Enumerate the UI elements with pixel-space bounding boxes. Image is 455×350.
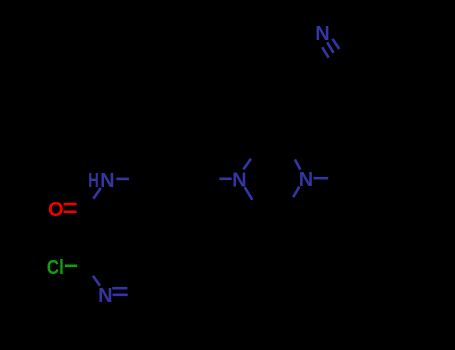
- wire nitrile triple bond middle line (half-bond): [327, 42, 334, 53]
- wire C=O double bond upper half: [64, 203, 77, 206]
- wire pyridine N=C6 double bond upper half: [112, 287, 127, 290]
- wire pyridine N to C2 (half-bond): [93, 276, 100, 286]
- wire piperazine N4 to benzyl C (half-bond): [314, 177, 329, 180]
- wire piperazine N4 to C3 up-left (half-bond): [295, 159, 300, 169]
- wire piperazine N1 to phenyl (half-bond): [219, 178, 231, 181]
- svg-text:Cl: Cl: [47, 257, 64, 279]
- wire piperazine N1 to C6 down-right (half-bond): [245, 187, 253, 200]
- svg-text:N: N: [315, 23, 329, 45]
- wire nitrile triple bond lower line (half-bond): [322, 47, 328, 58]
- wire piperazine N1 to C2 up-right (half-bond): [243, 159, 251, 170]
- wire amide N to phenyl (half-bond): [116, 178, 129, 181]
- wire C=O double bond lower half: [64, 211, 77, 214]
- wire Cl to pyridine C2 (half-bond): [65, 264, 77, 267]
- svg-text:N: N: [299, 169, 313, 191]
- svg-text:H: H: [88, 170, 99, 192]
- wire nitrile triple bond upper line (half-bond): [333, 39, 340, 49]
- svg-text:N: N: [98, 285, 112, 307]
- svg-text:O: O: [48, 199, 64, 221]
- wire piperazine N4 to C5 down-left (half-bond): [293, 187, 299, 198]
- wire amide N to carbonyl C (half-bond): [93, 188, 101, 199]
- svg-text:N: N: [100, 170, 114, 192]
- wire pyridine N=C6 double bond lower half: [113, 293, 128, 296]
